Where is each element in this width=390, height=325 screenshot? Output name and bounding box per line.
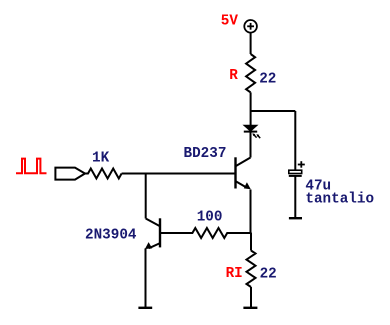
svg-text:RI: RI xyxy=(226,266,243,282)
wire down to capacitor top xyxy=(294,111,296,171)
wire node B to RI xyxy=(250,233,252,251)
transistor Q1 BD237 xyxy=(236,157,251,189)
wire Q1 emitter down to node B xyxy=(250,190,252,235)
input pulse waveform xyxy=(16,159,47,174)
power terminal xyxy=(244,20,257,33)
svg-text:5V: 5V xyxy=(221,14,239,30)
wire 1K to Q1 base xyxy=(122,173,236,175)
wire capacitor to ground xyxy=(294,176,296,218)
svg-text:tantalio: tantalio xyxy=(305,191,374,207)
capacitor C1 plus sign xyxy=(298,161,305,168)
ground RI xyxy=(243,307,257,309)
svg-text:R: R xyxy=(229,68,238,84)
svg-text:100: 100 xyxy=(197,209,223,225)
node A wire down to Q2 collector xyxy=(145,174,147,219)
input connector xyxy=(55,168,85,180)
wire R to LED anode xyxy=(250,92,252,125)
wire Q2 emitter down xyxy=(145,248,147,307)
svg-text:2N3904: 2N3904 xyxy=(85,228,137,244)
capacitor C1 xyxy=(289,170,302,176)
resistor R xyxy=(246,54,255,92)
svg-text:1K: 1K xyxy=(92,151,110,167)
node junction wire to capacitor xyxy=(251,110,296,112)
transistor Q2 2N3904 xyxy=(145,218,160,249)
LED D1 xyxy=(244,125,260,138)
ground Q2 emitter xyxy=(138,307,152,309)
svg-text:BD237: BD237 xyxy=(184,146,227,162)
wire RI to ground xyxy=(250,287,252,308)
resistor R2 1K xyxy=(85,169,122,179)
wire Q1 collector up to LED cathode xyxy=(250,132,252,158)
svg-text:22: 22 xyxy=(260,267,277,283)
resistor R3 100 xyxy=(160,228,252,238)
resistor RI xyxy=(247,251,256,288)
ground capacitor xyxy=(289,217,302,219)
wire 5V to R xyxy=(250,33,252,54)
svg-text:22: 22 xyxy=(259,72,276,88)
